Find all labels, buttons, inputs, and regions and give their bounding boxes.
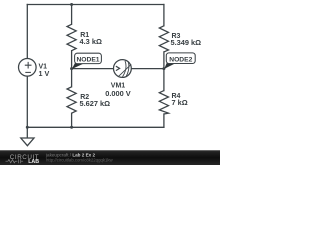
wire left rail lower [26,76,28,127]
wire R4 branch top lead [163,69,165,91]
wire R3 branch bottom lead [163,52,165,69]
resistor R4 [159,91,168,114]
wire R4 branch bottom lead [163,114,165,127]
CircuitLab logo [6,154,40,165]
wire NODE1 to voltmeter [72,68,114,70]
wire R1 branch top lead [71,5,73,25]
wire R2 branch bottom lead [71,113,73,127]
svg-text:1 V: 1 V [39,69,50,78]
label VM1 value [105,82,131,98]
junction dot top R1 branch [70,3,73,6]
wire R3 branch top lead [163,5,165,26]
label R1 value [80,32,102,46]
node NODE1 flag [72,53,101,69]
svg-text:NODE1: NODE1 [76,57,99,64]
voltage source V1 [19,59,37,77]
svg-text:5.627 kΩ: 5.627 kΩ [80,99,111,108]
wire R2 branch top lead [71,69,73,87]
svg-text:4.3 kΩ: 4.3 kΩ [80,37,102,46]
junction dot NODE2 [162,67,165,70]
svg-text:7 kΩ: 7 kΩ [172,98,188,107]
node NODE2 flag [164,53,195,69]
wire R1 branch bottom lead [71,51,73,69]
svg-text:LAB: LAB [28,159,39,165]
svg-text:5.349 kΩ: 5.349 kΩ [171,38,202,47]
label R3 value [171,33,202,47]
voltmeter VM1 [114,60,132,78]
label R2 value [80,94,111,108]
watermark bar [0,150,220,165]
wire left rail upper [26,5,28,59]
resistor R3 [159,26,168,52]
label R4 value [172,93,188,107]
label V1 value [39,63,50,77]
junction dot bottom left (ground) [26,126,29,129]
wire top rail [27,4,164,6]
ground [21,127,34,145]
svg-text:http://circuitlab.com/c8k22qgq: http://circuitlab.com/c8k22qgqk1kw [46,157,114,162]
wire bottom rail [27,126,164,128]
wire voltmeter to NODE2 [131,68,164,70]
resistor R1 [67,24,76,50]
resistor R2 [67,87,76,113]
junction dot bottom R2 branch [70,126,73,129]
junction dot NODE1 [70,67,73,70]
svg-text:NODE2: NODE2 [169,56,192,63]
svg-text:0.000 V: 0.000 V [105,89,131,98]
